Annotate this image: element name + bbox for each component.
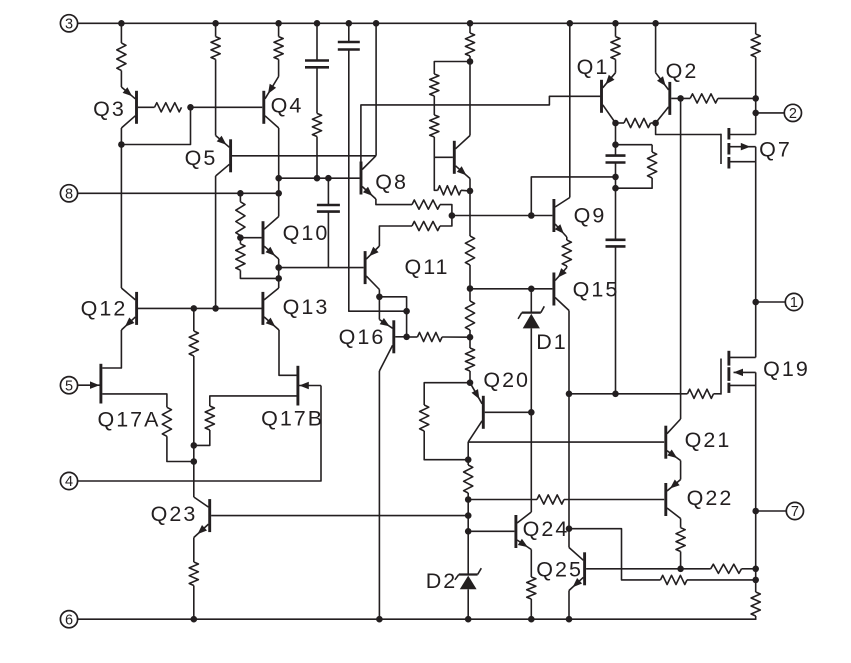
wire rail down to Q8 collector node [375, 23, 377, 156]
wire Q24 base line [468, 530, 514, 532]
node junction Q24 base line tap [465, 528, 472, 535]
mosfet Q19 body lead with arrow [734, 371, 756, 373]
wire Q25 emitter to bottom rail [568, 591, 570, 620]
wire terminal 5 stub [77, 384, 80, 386]
svg-text:Q9: Q9 [574, 204, 607, 228]
transistor Q20 [468, 383, 483, 442]
junction dots on bottom rail [191, 616, 573, 623]
wire resistor to base node [239, 236, 241, 238]
svg-text:Q7: Q7 [759, 138, 792, 162]
node junction D1 top on Q15 base line [528, 286, 535, 293]
wire Q12/Q13 base line [138, 307, 262, 309]
transistor Q9 [554, 198, 570, 238]
wire Q11 base line [279, 267, 364, 269]
node junction Q25 base resistor right end [752, 566, 759, 573]
node junction Q2 collector / Q7 gate [652, 120, 659, 127]
wire rail to resistor [120, 23, 122, 43]
wire to Q20 emitter node [469, 371, 471, 383]
mosfet Q19 source lead [729, 384, 756, 386]
node junction Q10 emitter / Q11 base line [275, 264, 282, 271]
node junction dot2 compensation cap tie [403, 308, 410, 315]
node junction dot1 Q11 collector / Q16 emitter [376, 294, 383, 301]
node junction Q23 base line tap [465, 512, 472, 519]
mosfet Q19 drain lead [729, 356, 756, 358]
node junction base line to Q5 collector [212, 305, 219, 312]
transistor Q3 [121, 87, 136, 128]
wire resistor to Q7 drain lead; pin2 node [755, 57, 757, 135]
svg-text:Q11: Q11 [404, 255, 449, 279]
wire top rail corner to resistor [755, 23, 757, 35]
node junction dot3 Q16 base [403, 334, 410, 341]
wire cap down to y394 node [615, 246, 617, 393]
wire resistor to Q22 bar [564, 499, 664, 501]
wire Q16 collector down to bottom rail [378, 371, 380, 619]
wire resistor to x194 chain [194, 430, 210, 445]
resistor rail to divider tap x470 [465, 33, 474, 56]
wire Q4 collector down to Q10 collector [278, 128, 280, 217]
resistor Q20 parallel [420, 405, 429, 431]
resistor between Q1 and Q2 collectors [624, 118, 651, 127]
wire cap-328 link down [327, 178, 329, 205]
node junction Q20 base / D1 anode / Q24 collector [528, 409, 535, 416]
node junction x468 Q20-collector node [465, 456, 472, 463]
wire to Q16 base resistor node [469, 330, 471, 348]
jfet Q17A gate lead with arrow from terminal 5 [78, 384, 101, 386]
resistor x470 chain second [465, 301, 474, 330]
svg-text:Q20: Q20 [483, 368, 530, 392]
zener diode D1 [518, 306, 544, 328]
wire Q3 collector down to Q12 collector [120, 128, 122, 288]
node junction cap-328 top [325, 175, 332, 182]
resistor y580 to x756 [661, 575, 688, 584]
wire resistor to tap and down to QX collector [469, 56, 471, 136]
wire resistor to Q5 emitter diagonal [215, 59, 217, 135]
wire Q21 base line east [468, 441, 664, 443]
svg-text:Q24: Q24 [523, 517, 570, 541]
wire Q5 collector down to Q12/Q13 base line [215, 176, 217, 308]
wire resistor to Q25-base node [680, 552, 682, 569]
wire Q10 emitter chain down to Q13 collector [278, 259, 280, 288]
transistor QX [454, 136, 470, 179]
svg-text:Q8: Q8 [375, 170, 408, 194]
node junction y580 resistor right end [752, 577, 759, 584]
wire rail to capacitor [348, 23, 350, 42]
wire resistor stubs [651, 145, 653, 152]
wire cap bottom to Q10-emitter/Q11-base line [327, 212, 329, 268]
wire Q2 base to resistor [671, 97, 690, 99]
wire resistor to Q1 emitter diagonal [615, 59, 617, 72]
node junction Q17B source resistor tap [191, 442, 198, 449]
svg-text:5: 5 [65, 378, 73, 394]
wire resistor to x756 [687, 579, 756, 581]
wire QX emitter down chain [469, 179, 471, 237]
wire resistor ends [566, 237, 568, 240]
wire resistor to Q10 emitter node [240, 270, 278, 278]
transistor Q25 [569, 548, 585, 591]
mosfet Q7 source lead [729, 161, 756, 163]
terminal pin 5 [60, 377, 77, 395]
jfet Q17A channel bar [99, 364, 102, 404]
svg-text:4: 4 [65, 474, 73, 490]
wire rail to Q2 emitter diagonal [655, 23, 657, 72]
resistor Q16 base to x470 chain [417, 332, 442, 341]
resistor Q25 base chain [711, 564, 742, 573]
wire between divider resistors [433, 96, 435, 115]
node junction N1 Q8-emitter network [449, 212, 456, 219]
wire Q25 collector tap east-down to y580 resistor [569, 529, 661, 580]
wire N1 down to second resistor [440, 216, 452, 226]
wire Q25 base line east [586, 568, 711, 570]
wire base node to Q10 bar [240, 237, 261, 239]
resistor Q9 emitter to Q15 emitter [562, 240, 571, 266]
wire resistor to bottom rail [193, 586, 195, 620]
svg-text:Q17A: Q17A [98, 407, 161, 431]
svg-text:Q4: Q4 [271, 94, 304, 118]
mosfet Q19 channel dashes [727, 351, 730, 393]
svg-text:2: 2 [789, 106, 797, 122]
node junction Q2 base / Q21 collector line [677, 95, 684, 102]
wire Q20 collector corner: Q21 base line and drop [467, 442, 469, 460]
node junction base line to Q23 chain [191, 305, 198, 312]
svg-text:Q15: Q15 [573, 278, 620, 302]
wire rail down to Q9 collector [569, 23, 571, 197]
svg-text:Q16: Q16 [339, 325, 386, 349]
wire Q24 collector up to D1 chain [530, 412, 532, 512]
wire resistor to bottom rail [530, 599, 532, 619]
wire resistor to Q4 emitter diagonal [278, 59, 280, 76]
wire Q23 base line east to x468 chain [211, 515, 468, 517]
wire to terminal 7 [756, 510, 787, 512]
wire resistor to x756 [718, 97, 756, 99]
wire dot1 east and down to Q16 base node [379, 297, 406, 337]
wire Q20 emitter node west to parallel resistor [424, 383, 470, 405]
resistor rail to Q5 emitter [211, 37, 220, 60]
node junction Q16 base resistor east end [467, 334, 474, 341]
resistor x470 chain first [465, 236, 474, 265]
capacitor C-616 lower [606, 239, 626, 242]
node junction y394 line [566, 391, 573, 398]
wire dot1 down to Q16 emitter diagonal [378, 297, 380, 320]
resistor Q12Q13-base node down chain [189, 331, 198, 356]
node junction y177 line east end [612, 174, 619, 181]
wire loop Q3 collector to base-resistor output [121, 107, 190, 144]
jfet Q17B gate lead with arrow from terminal 4 [298, 385, 321, 387]
wire capacitor down to Q16 base node corner [349, 50, 407, 312]
node junction parallel RC top [612, 141, 619, 148]
resistor x468 chain [464, 465, 473, 493]
node junction Q2-base resistor at x756 [752, 95, 759, 102]
resistor from top rail corner down to Q2 base node [751, 34, 760, 57]
wire Q24 emitter to resistor [530, 550, 532, 578]
wire rail to resistor x470 [469, 23, 471, 33]
wire base node to resistor [193, 308, 195, 331]
wire N1 to Q9 base [452, 215, 553, 217]
svg-text:8: 8 [65, 187, 73, 203]
svg-text:Q2: Q2 [666, 59, 699, 83]
wire rail to resistor [278, 23, 280, 36]
node junction y178 line on Q4 collector wire [275, 175, 282, 182]
wire Q12 emitter down to Q17A drain [102, 330, 121, 368]
resistor Q10 base to emitter [236, 244, 245, 270]
svg-text:Q19: Q19 [763, 357, 810, 381]
resistor parallel with cap [648, 152, 657, 178]
wire resistor to x194 chain [167, 436, 194, 461]
resistor Q22 base [537, 495, 564, 504]
mosfet Q19 gate bar [720, 359, 722, 395]
wire Q1 base west jog [600, 95, 601, 97]
transistor Q5 [216, 136, 231, 177]
resistor terminal8 node to Q10 base [236, 202, 245, 236]
transistor Q10 [263, 217, 279, 260]
wire terminal 4 to Q17B gate riser [78, 386, 321, 482]
wire Q8 emitter to resistor [376, 199, 412, 205]
svg-text:Q17B: Q17B [261, 407, 324, 431]
resistor N1 to x379 drop [412, 221, 440, 230]
resistor Q17B source [205, 406, 214, 430]
node junction pin 2 [752, 110, 759, 117]
svg-text:Q22: Q22 [687, 486, 734, 510]
wire dot to resistor [239, 193, 241, 202]
svg-text:Q3: Q3 [93, 97, 126, 121]
transistor Q21 [666, 419, 681, 461]
wire Q8 base up and east to Q1 base (with jog) [361, 96, 600, 161]
wire base corner down to B-E resistor [434, 157, 437, 190]
node junction Q25 collector tap [566, 525, 573, 532]
resistor Q22 collector [676, 528, 685, 552]
resistor above bottom-right rail corner [751, 592, 760, 616]
wire resistor to bottom rail corner [755, 616, 757, 620]
transistor Q2 [656, 73, 670, 123]
svg-text:Q1: Q1 [577, 55, 610, 79]
capacitor C-328 [317, 204, 340, 207]
wire Q1 collector node down to cap [615, 123, 617, 156]
node junction Q9 base/collector tie [528, 212, 535, 219]
node junction Q15 base line west end [467, 285, 474, 292]
transistor Q4 [264, 77, 279, 129]
wire resistor to Q3 emitter diagonal [120, 71, 122, 88]
jfet Q17B source lead [210, 396, 297, 406]
wire resistor to x470 [442, 336, 470, 338]
node junction Q3 collector loop [118, 141, 125, 148]
wire resistor to Q2 collector node [651, 122, 656, 124]
svg-text:Q21: Q21 [685, 428, 732, 452]
wire Q13 emitter down to Q17B drain [279, 330, 297, 375]
wire parallel resistor loop top [616, 144, 653, 146]
wire tap west and down through divider resistors [434, 62, 470, 75]
wire Q19 source/body down to V- chain [755, 372, 757, 592]
wire resistor to x756 [742, 568, 756, 570]
resistor Q17A source [162, 407, 171, 436]
wire resistor to node N1 [440, 205, 452, 216]
wire D1 anode down to node [530, 328, 532, 412]
transistor Q13 [263, 288, 279, 330]
svg-text:Q10: Q10 [283, 221, 330, 245]
wire Q7 source/body down to output node and Q19 drain [755, 147, 757, 358]
node junction Q10 emitter resistor return [275, 275, 282, 282]
resistor Q3 base [155, 103, 182, 112]
mosfet Q7 gate bar [720, 134, 722, 164]
node junction pin 7 [752, 508, 759, 515]
svg-text:Q25: Q25 [536, 557, 583, 581]
transistor Q15 [554, 268, 569, 311]
resistor rail to Q3 emitter [117, 43, 126, 71]
node junction pin 1 (output) [752, 299, 759, 306]
node junction parallel RC bottom [612, 185, 619, 192]
wire to Q4 base [191, 106, 263, 108]
wire terminal 8 line [78, 192, 279, 194]
resistor Q19 gate [688, 389, 714, 398]
node junction x616 on y394 line [612, 391, 619, 398]
node junction Q10 base [237, 234, 244, 241]
resistor QX base-emitter [438, 186, 461, 195]
wire Q23 emitter to resistor [193, 538, 195, 563]
resistor under capacitor x317 [312, 113, 321, 136]
wire resistor down to Q23 collector [193, 356, 195, 497]
wire resistor to QX emitter node [461, 189, 470, 192]
resistor rail to Q4 emitter [274, 37, 283, 60]
svg-text:Q5: Q5 [185, 146, 218, 170]
terminal pin 2 [784, 104, 801, 122]
wire to terminal 1 [756, 301, 786, 303]
svg-text:D1: D1 [536, 330, 567, 354]
wire divider to QX base corner [434, 137, 453, 157]
terminal pin 3 [60, 15, 77, 33]
jfet Q17A source lead [102, 394, 167, 407]
wire Q15 collector down to Q25 collector [568, 311, 570, 548]
wire resistor to x468 node [424, 431, 468, 460]
wire dot3 to resistor [407, 336, 418, 338]
svg-text:1: 1 [790, 295, 798, 311]
terminal pin 8 [60, 185, 77, 203]
terminal pin 6 [60, 611, 77, 629]
wire rail to resistor [615, 23, 617, 36]
wire rail to capacitor [316, 23, 318, 60]
wire Q15 base line [470, 288, 552, 290]
node junction x317 chain on y178 line [314, 175, 321, 182]
svg-text:Q12: Q12 [81, 297, 128, 321]
terminal pin 4 [60, 472, 77, 490]
wire Q2 collector node down to Q7 gate [656, 123, 721, 135]
resistor divider lower [430, 115, 439, 137]
wire Q16 base to dot3 [395, 336, 406, 338]
wire D2 anode to bottom rail [467, 589, 469, 619]
wire to Q15 base node [469, 265, 471, 301]
transistor Q11 [365, 246, 379, 290]
node junction Q3 base resistor / Q4 base [187, 104, 194, 111]
transistor Q23 [194, 497, 210, 538]
svg-text:Q13: Q13 [283, 295, 330, 319]
zener diode D2 [455, 568, 481, 589]
wire Q11 collector to node dot1 [378, 290, 380, 297]
wire capacitor to resistor [316, 67, 318, 113]
junction dots on top rail [118, 20, 659, 27]
svg-text:3: 3 [65, 17, 73, 33]
resistor Q23 emitter [189, 562, 198, 586]
mosfet Q7 body lead with arrow [729, 146, 756, 148]
node junction terminal-8 wire end [275, 190, 282, 197]
resistor rail to Q1 emitter [611, 37, 620, 60]
capacitor C-349 [338, 41, 360, 44]
wire Q21 emitter to Q22 emitter [680, 461, 682, 480]
resistor Q2 base to pin2 node [690, 94, 718, 103]
node junction Q22 base line tap [465, 496, 472, 503]
wire node to resistor [467, 460, 469, 465]
wire resistor to gate bar [714, 393, 722, 395]
wire Q20 base to node [485, 411, 532, 413]
node junction x470 upper divider tap [467, 58, 474, 65]
node junction QX emitter / B-E resistor [467, 188, 474, 195]
wire resistor through base-taps to D2 [467, 493, 469, 575]
terminal pin 1 [785, 293, 802, 311]
transistor Q24 [516, 512, 531, 550]
wire Q5 base line to Q8 collector and rail drop [232, 155, 376, 157]
node junction Q17A source resistor tap [191, 458, 198, 465]
svg-text:D2: D2 [426, 569, 457, 593]
wire Q22 base line west segment [468, 499, 537, 501]
capacitor C-317 [305, 59, 329, 62]
wire Q1 collector to resistor [616, 122, 625, 124]
wire Q8 base line west to Q4 collector [279, 177, 360, 179]
wire to terminal 2 [756, 112, 785, 114]
wire Q3 base to resistor [138, 106, 155, 108]
wire base node to resistor [239, 238, 241, 244]
wire bottom rail from pin 6 [78, 618, 756, 620]
wire up and east to Q9 collector node x616 [531, 177, 615, 216]
svg-text:7: 7 [791, 504, 799, 520]
resistor x470 chain third [465, 348, 474, 371]
wire resistor to x379 corner and down to Q11 emitter [379, 226, 412, 246]
transistor Q16 [379, 318, 393, 371]
wire Q22 collector to resistor [680, 519, 682, 528]
mosfet Q7 drain lead [729, 134, 756, 136]
transistor Q1 [602, 73, 616, 123]
wire D1 cathode up to Q15 base line [530, 289, 532, 313]
resistor Q24 emitter [527, 577, 536, 599]
node junction Q22 collector resistor bottom [677, 566, 684, 573]
wire Q15-collector node east to Q19 gate resistor [569, 393, 688, 395]
mosfet Q7 channel dashes [727, 128, 730, 169]
wire cap to lower dots [615, 163, 617, 240]
resistor divider upper [430, 74, 439, 96]
resistor Q8 emitter [412, 200, 440, 209]
wire rail to resistor [215, 23, 217, 36]
node junction Q10 base resistor top [237, 190, 244, 197]
wire resistor down to y178 line [316, 137, 318, 179]
capacitor C-616 upper [606, 154, 626, 157]
jfet Q17B channel bar [296, 366, 299, 406]
terminal pin 7 [786, 502, 803, 520]
transistor Q22 [666, 480, 681, 519]
node junction Q1 collector [612, 120, 619, 127]
transistor Q12 [121, 288, 136, 330]
node junction Q20 emitter [467, 379, 474, 386]
svg-text:6: 6 [65, 612, 73, 628]
svg-text:Q23: Q23 [151, 502, 198, 526]
wire V+ top rail from pin 3 [78, 22, 756, 24]
wire Q2 base node down to Q21 collector [680, 98, 682, 419]
transistor Q8 [361, 156, 376, 199]
